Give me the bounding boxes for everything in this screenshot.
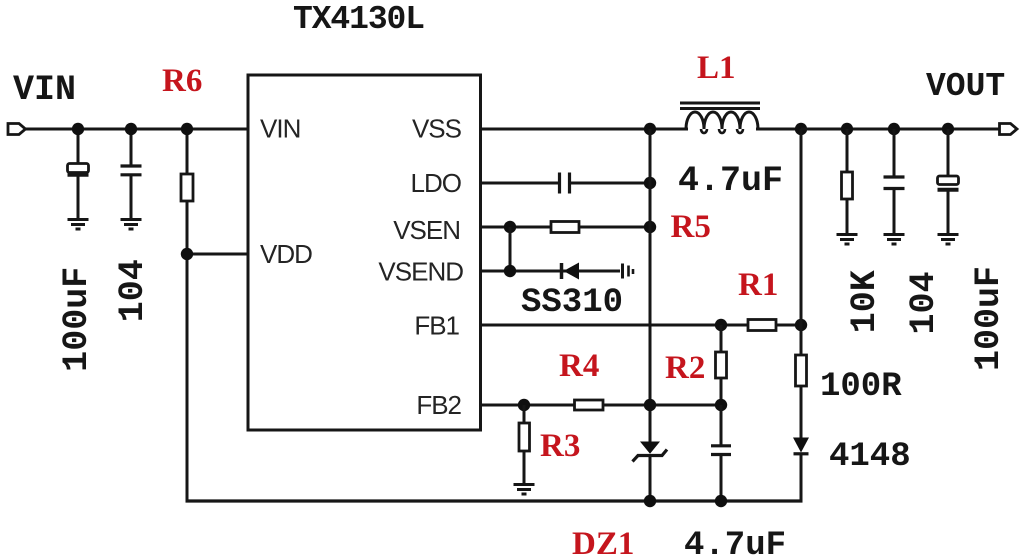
resistor 10K: [842, 129, 853, 233]
wire FB2: [481, 404, 722, 407]
wire left rail: [186, 254, 189, 503]
ground C2: [121, 220, 142, 230]
input connector: [8, 124, 26, 135]
node VOUT-C4: [942, 123, 954, 135]
svg-text:FB1: FB1: [414, 311, 459, 341]
svg-text:R2: R2: [665, 350, 705, 386]
resistor 100R: [796, 355, 807, 386]
svg-text:VSS: VSS: [412, 114, 462, 144]
svg-text:LDO: LDO: [411, 168, 461, 198]
ground C1: [68, 220, 89, 230]
svg-text:TX4130L: TX4130L: [293, 1, 424, 38]
node FB2-R3: [518, 399, 530, 411]
inductor L1: [680, 103, 760, 133]
diode D3 4148: [793, 438, 809, 503]
svg-text:VSEND: VSEND: [378, 257, 463, 287]
svg-text:SS310: SS310: [521, 284, 623, 322]
wire L1 out: [756, 128, 802, 131]
output connector: [1000, 124, 1018, 135]
svg-text:100uF: 100uF: [969, 266, 1009, 371]
wire LDO: [481, 182, 559, 185]
ground C3: [884, 235, 905, 245]
node L1-out: [795, 123, 807, 135]
svg-text:R1: R1: [738, 267, 778, 303]
resistor R5: [551, 222, 579, 233]
wire VIN rail: [26, 128, 249, 131]
svg-text:DZ1: DZ1: [572, 526, 634, 560]
wire VDD: [187, 253, 248, 256]
svg-text:4.7uF: 4.7uF: [678, 161, 783, 201]
svg-text:VOUT: VOUT: [926, 68, 1005, 105]
svg-text:R3: R3: [540, 428, 580, 464]
node DZ1-bottom: [644, 495, 656, 507]
capacitor C5 4.7uF bottom: [711, 405, 731, 501]
diode D2 SS310: [562, 263, 580, 280]
node FB2-DZ1: [644, 399, 656, 411]
svg-text:R5: R5: [671, 209, 711, 245]
svg-text:10K: 10K: [845, 270, 885, 333]
svg-text:100uF: 100uF: [57, 267, 97, 372]
node VIN-C2: [125, 123, 137, 135]
wire mid rail top: [649, 129, 652, 442]
wire bottom rail: [186, 499, 803, 502]
ground C4: [938, 235, 959, 245]
svg-text:FB2: FB2: [416, 390, 461, 420]
node LDO-rail: [644, 177, 656, 189]
capacitor LDO series: [560, 173, 570, 194]
zener DZ1: [633, 442, 668, 502]
node VSS-rail: [644, 123, 656, 135]
svg-text:R4: R4: [559, 348, 599, 384]
svg-text:4148: 4148: [829, 438, 911, 476]
svg-text:104: 104: [113, 259, 153, 322]
node VOUT-C3: [888, 123, 900, 135]
node R6-VDD: [181, 248, 193, 260]
capacitor C4 100uF output: [938, 129, 959, 233]
terminal stub VSEND: [623, 264, 634, 279]
wire VSEN: [481, 226, 651, 229]
resistor R4: [575, 400, 604, 410]
svg-text:L1: L1: [697, 50, 736, 86]
resistor R2: [716, 325, 727, 405]
svg-text:VIN: VIN: [260, 114, 300, 144]
wire VSEND: [481, 270, 621, 273]
capacitor C1 100uF input: [68, 129, 89, 218]
wire link VSEN-VSEND: [509, 227, 512, 271]
wire FB1: [481, 324, 802, 327]
wire VOUT rail: [801, 128, 1000, 131]
node VIN-C1: [72, 123, 84, 135]
ground 10K: [837, 235, 858, 245]
wire right rail: [800, 129, 803, 438]
svg-text:4.7uF: 4.7uF: [684, 527, 786, 560]
IC U1 TX4130L: [248, 75, 481, 430]
svg-text:VIN: VIN: [13, 70, 76, 110]
svg-text:100R: 100R: [820, 368, 902, 406]
node VSEN-rail: [644, 221, 656, 233]
svg-text:104: 104: [904, 271, 944, 334]
node VSEND-link: [504, 265, 516, 277]
node C5-bottom: [715, 495, 727, 507]
wire LDO right: [571, 182, 650, 185]
node VOUT-R7: [841, 123, 853, 135]
node VIN-R6: [181, 123, 193, 135]
resistor R6: [181, 129, 193, 254]
capacitor C2 104 input: [121, 129, 142, 218]
node FB1-right: [795, 319, 807, 331]
ground R3: [514, 485, 535, 495]
svg-text:R6: R6: [162, 63, 202, 99]
svg-text:VDD: VDD: [260, 239, 312, 269]
svg-text:VSEN: VSEN: [393, 215, 460, 245]
resistor R1: [748, 320, 776, 331]
node FB1-R2: [715, 319, 727, 331]
node FB2-C5: [715, 399, 727, 411]
capacitor C3 104 output: [884, 129, 905, 233]
resistor R3: [519, 405, 530, 483]
wire VSS: [481, 128, 689, 131]
node VSEN-link: [504, 221, 516, 233]
